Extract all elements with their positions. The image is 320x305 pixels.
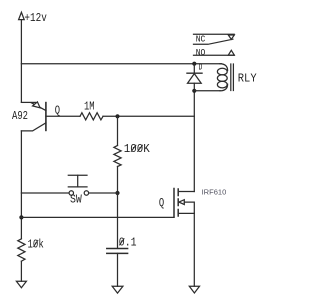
diode top lead <box>193 64 195 73</box>
diode triangle <box>188 74 202 84</box>
wire lower left rail (collector down) <box>20 131 22 239</box>
relay NC contact line <box>194 33 235 35</box>
SW left contact <box>69 191 73 195</box>
diode bottom lead <box>193 83 195 91</box>
svg-text:Q: Q <box>55 103 60 117</box>
slash of zero in 10k <box>34 240 38 246</box>
coil bottom corner <box>220 84 228 91</box>
junction dot relay bottom <box>192 89 196 93</box>
emitter diagonal <box>31 103 46 111</box>
capacitor C1 top plate <box>107 248 128 250</box>
transistor Q1 A92 (PNP) <box>21 102 46 131</box>
svg-text:A92: A92 <box>12 109 28 123</box>
slashes of zeros in 100K <box>131 145 142 151</box>
svg-text:NC: NC <box>196 34 206 45</box>
svg-text:NO: NO <box>196 47 206 58</box>
resistor R2 100K <box>114 146 121 167</box>
channel segment middle <box>177 199 179 206</box>
wire base to 1M <box>46 115 80 117</box>
wire drain node vertical <box>193 91 195 192</box>
SW cap bar <box>68 174 87 176</box>
diode D <box>187 64 202 91</box>
svg-text:Q: Q <box>159 196 164 210</box>
diode cathode bar <box>187 72 202 74</box>
source lead <box>178 212 194 214</box>
coil loop 1 <box>217 68 227 75</box>
body arrow <box>179 200 184 205</box>
wire capacitor to ground <box>117 253 119 286</box>
wire relay bottom <box>194 90 220 92</box>
ground (MOSFET) <box>189 286 199 293</box>
svg-text:D: D <box>199 61 203 72</box>
wire top rail <box>21 63 221 65</box>
collector diagonal <box>21 123 46 131</box>
emitter stub <box>21 101 35 103</box>
resistor R3 10k <box>18 239 25 261</box>
ground (capacitor) <box>112 286 123 293</box>
svg-text:100K: 100K <box>124 142 151 156</box>
+12V power arrow <box>19 12 25 19</box>
coil top corner <box>220 64 228 71</box>
core bar 2 <box>232 64 234 91</box>
relay NO contact line <box>194 54 235 56</box>
junction dot base/100K <box>115 114 119 118</box>
gate bar <box>173 189 175 218</box>
coil loop 2 <box>217 75 227 82</box>
wire 10k to ground <box>20 261 22 281</box>
ground (10k) <box>16 281 26 288</box>
emitter arrow <box>33 102 41 108</box>
wire left rail <box>20 20 22 103</box>
capacitor C1 bottom plate <box>107 252 128 254</box>
wire junction to 100K <box>117 116 119 145</box>
wire source to ground <box>193 213 195 286</box>
svg-text:1M: 1M <box>84 100 95 114</box>
svg-text:IRF610: IRF610 <box>202 187 227 196</box>
NC contact triangle <box>228 35 234 39</box>
wire 100K to SW node <box>117 167 119 194</box>
wire bottom rail to gate <box>21 216 174 218</box>
body lead <box>184 202 194 213</box>
svg-text:+12v: +12v <box>24 11 46 25</box>
wire SW node down to capacitor <box>117 193 119 248</box>
base bar <box>45 103 47 131</box>
junction dot relay top <box>192 62 196 66</box>
channel segment top <box>177 189 179 196</box>
coil loop 3 <box>217 81 227 88</box>
junction dot SW node <box>115 191 119 195</box>
channel segment bottom <box>177 210 179 217</box>
SW right contact <box>84 191 88 195</box>
wire SW to node <box>89 192 118 194</box>
slash of zero in 0.1 <box>120 239 124 245</box>
NO contact triangle <box>228 50 234 55</box>
MOSFET Q2 IRF610 <box>174 189 194 218</box>
SW actuator bar <box>68 186 87 188</box>
SW stem <box>77 175 79 187</box>
relay coil RLY <box>194 64 233 91</box>
wire 1M to drain node <box>103 115 194 117</box>
junction dot bottom wire <box>19 215 23 219</box>
pushbutton SW <box>21 175 117 195</box>
svg-text:RLY: RLY <box>238 71 257 85</box>
resistor R1 1M <box>80 113 103 120</box>
core bar 1 <box>230 64 232 91</box>
svg-text:SW: SW <box>70 193 82 207</box>
wire rail to SW <box>21 192 69 194</box>
drain lead <box>178 191 194 193</box>
relay common blade <box>194 39 233 44</box>
